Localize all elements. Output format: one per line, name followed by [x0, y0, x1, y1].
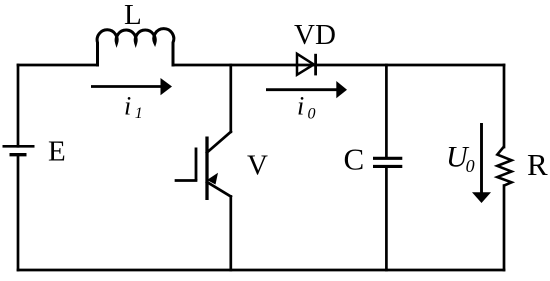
wire left rail upper	[17, 65, 20, 146]
igbt gate bar	[195, 148, 198, 181]
svg-text:E: E	[48, 136, 66, 168]
svg-text:V: V	[247, 150, 268, 182]
wire diode interior	[297, 64, 316, 67]
igbt gate lead	[176, 179, 196, 182]
svg-text:i0: i0	[297, 92, 316, 123]
svg-text:U0: U0	[446, 141, 475, 176]
svg-text:C: C	[344, 141, 365, 176]
current arrow i1	[91, 78, 172, 95]
wire bottom rail	[18, 269, 504, 272]
igbt main bar	[205, 137, 208, 201]
transistor V (IGBT)	[176, 65, 231, 270]
wire top rail middle segment	[174, 64, 297, 67]
wire right rail upper	[503, 65, 506, 147]
svg-text:L: L	[124, 0, 142, 31]
svg-text:VD: VD	[294, 19, 336, 51]
current arrow i0	[266, 81, 347, 98]
resistor R	[497, 147, 511, 186]
wire top rail left segment	[18, 64, 97, 67]
igbt emitter lead	[229, 197, 232, 271]
battery E	[3, 146, 35, 154]
igbt emitter diagonal	[207, 182, 231, 197]
capacitor C	[373, 65, 402, 270]
voltage arrow U0	[472, 123, 491, 203]
wire right rail lower	[503, 186, 506, 270]
diode VD	[297, 54, 316, 76]
capacitor plates	[373, 157, 402, 160]
wire top rail right segment	[316, 64, 504, 67]
wire capacitor top lead	[385, 65, 388, 157]
wire capacitor bottom lead	[385, 168, 388, 270]
wire left rail lower	[17, 155, 20, 271]
svg-text:R: R	[527, 147, 548, 182]
inductor L	[97, 29, 174, 65]
svg-text:i1: i1	[124, 92, 143, 123]
igbt collector diagonal	[207, 132, 231, 153]
igbt collector lead	[229, 65, 232, 132]
igbt emitter arrow	[207, 173, 218, 185]
